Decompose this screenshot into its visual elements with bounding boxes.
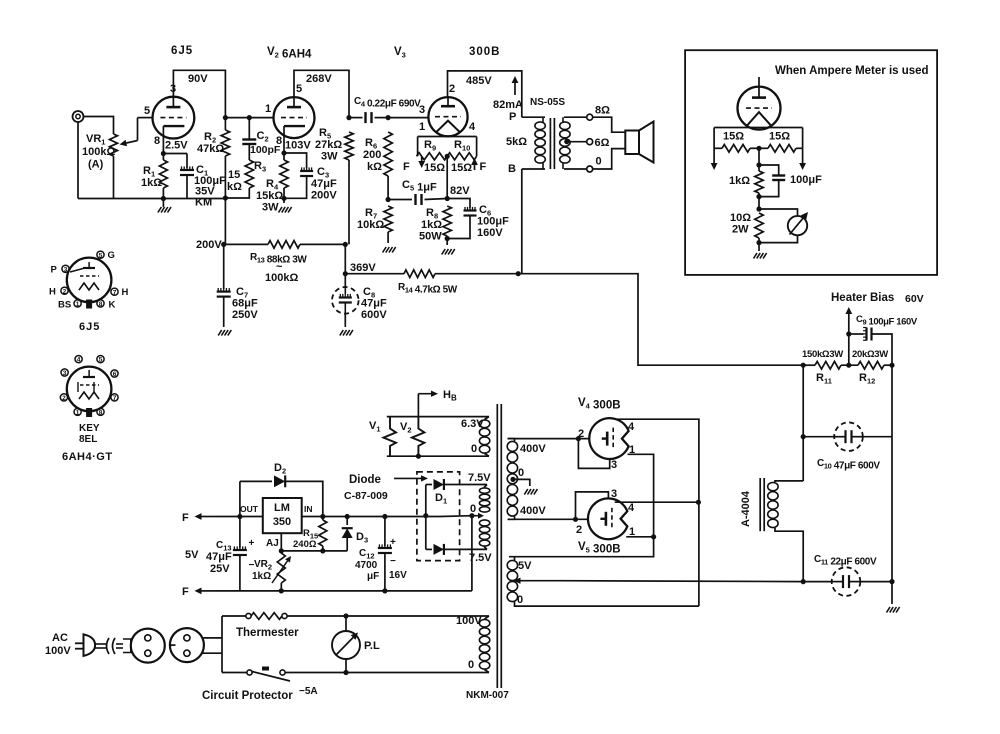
svg-text:2W: 2W xyxy=(732,224,749,236)
label primary 0 xyxy=(468,659,474,671)
wire 369V drop xyxy=(344,244,346,287)
svg-text:90V: 90V xyxy=(188,73,208,85)
svg-text:485V: 485V xyxy=(466,75,492,87)
svg-text:5: 5 xyxy=(99,357,103,364)
svg-text:−: − xyxy=(390,556,396,567)
wire R15 bottom xyxy=(322,546,324,551)
svg-text:H: H xyxy=(122,287,129,298)
svg-text:3: 3 xyxy=(63,370,67,377)
label 100V xyxy=(456,615,482,627)
svg-text:82mA: 82mA xyxy=(493,99,523,111)
label V4 pin3 xyxy=(611,459,617,471)
svg-text:15Ω: 15Ω xyxy=(723,131,744,143)
wire 369V rail to bias corner xyxy=(518,274,803,366)
wire V5 grid loop xyxy=(576,492,609,519)
label C13 value xyxy=(206,551,232,563)
wire input ground rail xyxy=(78,198,225,200)
wire connector stub bottom xyxy=(202,652,222,654)
transformer 100V primary winding xyxy=(479,619,489,669)
label C8 xyxy=(363,286,375,300)
svg-text:K: K xyxy=(109,300,116,311)
label C5 xyxy=(402,179,437,194)
node R1 ground junction xyxy=(161,196,166,201)
wire B line down xyxy=(521,169,523,274)
potentiometer VR2 1k xyxy=(272,553,291,583)
transformer T1 secondary winding xyxy=(560,117,570,169)
wire C12 bottom xyxy=(384,553,386,591)
label 2.5V xyxy=(165,140,188,152)
svg-text:47μF: 47μF xyxy=(311,178,337,190)
label AC 100V xyxy=(45,645,71,657)
svg-text:KEY: KEY xyxy=(79,423,100,434)
svg-text:82V: 82V xyxy=(450,185,470,197)
wire B lead xyxy=(522,168,545,170)
label 350 xyxy=(273,516,291,528)
svg-text:15Ω: 15Ω xyxy=(769,131,790,143)
transformer 6.3V winding xyxy=(479,420,489,453)
resistor R7 10k xyxy=(384,206,392,232)
wire D2 right xyxy=(285,481,323,516)
svg-text:6.3V: 6.3V xyxy=(461,418,484,430)
node 200V left junction xyxy=(221,242,226,247)
socket 6AH4 internals xyxy=(78,370,99,399)
label V5 pin1 xyxy=(629,526,635,538)
wire bias node xyxy=(848,330,850,365)
wire C6 bottom xyxy=(447,216,470,239)
label C4 value xyxy=(354,96,421,110)
node R11-R12 junction xyxy=(846,363,851,368)
svg-text:100kΩ: 100kΩ xyxy=(82,146,115,158)
label C7 xyxy=(236,286,248,300)
label R7 xyxy=(365,207,377,221)
wire center tap down xyxy=(446,156,448,198)
node AJ junction xyxy=(279,548,284,553)
svg-text:50W: 50W xyxy=(419,231,442,243)
socket 6AH4 pin8 xyxy=(97,408,104,416)
ground (bias filter) xyxy=(887,607,900,613)
wire meter return xyxy=(759,235,798,242)
wire meter bus left drop xyxy=(713,128,715,149)
socket 6J5 pin3 xyxy=(62,265,69,273)
label 7.5V upper xyxy=(468,472,491,484)
node meter center tap xyxy=(756,146,761,151)
label C13 volt xyxy=(210,563,230,575)
svg-text:3: 3 xyxy=(611,459,617,471)
svg-text:4700: 4700 xyxy=(355,560,378,571)
label R3 xyxy=(254,160,266,174)
svg-text:5: 5 xyxy=(99,252,103,259)
svg-text:10kΩ: 10kΩ xyxy=(357,219,384,231)
svg-text:Diode: Diode xyxy=(349,474,381,486)
label F bottom xyxy=(182,586,189,598)
label 8ohm xyxy=(595,105,610,117)
wire bias divider left drop xyxy=(802,365,804,481)
node cathode junction xyxy=(161,151,166,156)
cable break symbol xyxy=(107,638,116,654)
input jack J1 xyxy=(73,111,84,122)
wire 6J5 cathode xyxy=(162,138,164,153)
svg-text:When Ampere Meter is used: When Ampere Meter is used xyxy=(775,65,929,77)
wire R5 bottom xyxy=(348,160,350,244)
socket 6AH4 pin7 xyxy=(111,394,118,402)
label C6 value xyxy=(477,216,509,228)
diode D3 xyxy=(342,517,353,551)
svg-text:6J5: 6J5 xyxy=(171,45,193,57)
tube V4 300B rectifier xyxy=(589,418,628,459)
wire C11 left xyxy=(803,581,832,583)
pilot lamp P.L xyxy=(332,616,360,673)
tube 300B (meter option) xyxy=(738,77,781,130)
svg-text:0: 0 xyxy=(596,156,602,168)
wire 7.5 lower bottom xyxy=(484,547,487,550)
resistor R8 1k 50W xyxy=(443,206,451,236)
capacitor C1 100uF 35V xyxy=(180,166,194,175)
wire V5 pin1 out xyxy=(626,536,653,538)
label 0 tap xyxy=(470,503,476,515)
label R12 value xyxy=(852,349,888,360)
choke A-4004 core xyxy=(760,478,764,531)
node R15 bottom junction xyxy=(320,548,325,553)
label meter 15 left xyxy=(723,131,744,143)
label IN xyxy=(304,504,313,514)
svg-text:4: 4 xyxy=(469,121,476,133)
svg-text:NS-05S: NS-05S xyxy=(530,97,565,108)
wire V2 cathode xyxy=(283,138,285,153)
svg-text:4: 4 xyxy=(628,421,635,433)
ground under C8 xyxy=(340,330,353,336)
svg-text:1kΩ: 1kΩ xyxy=(729,175,750,187)
label V4 title xyxy=(578,397,621,412)
label R2 value xyxy=(197,143,224,155)
wire F bottom row xyxy=(216,590,472,592)
transformer T1 core xyxy=(550,118,554,169)
resistor R14 4.7k 5W xyxy=(404,270,435,278)
svg-text:68μF: 68μF xyxy=(232,298,258,310)
wire V4 pin1 out xyxy=(509,454,654,556)
svg-text:2: 2 xyxy=(449,83,455,95)
F arrow right xyxy=(471,158,478,170)
node C2 junction xyxy=(247,115,252,120)
resistor 15 left (meter) xyxy=(714,145,759,153)
svg-text:6AH4·GT: 6AH4·GT xyxy=(62,451,113,463)
wire C4 to grid node xyxy=(375,117,389,119)
wire C1 top xyxy=(186,154,188,169)
label 400V top xyxy=(520,443,546,455)
wire break to plug2 xyxy=(116,639,131,653)
label R13 line2 xyxy=(265,272,298,284)
svg-text:P.L: P.L xyxy=(364,640,380,652)
resistor 15 right (meter) xyxy=(759,145,803,153)
label V2 pin1 xyxy=(265,103,271,115)
svg-text:8: 8 xyxy=(276,135,282,147)
wire C10 right xyxy=(863,436,892,438)
node heater bottom junction xyxy=(416,454,421,459)
label V4 pin2 xyxy=(578,428,584,440)
wire D1 upper right xyxy=(444,484,487,486)
wire secondary 0ohm xyxy=(564,168,586,170)
ground under C7 xyxy=(218,330,231,336)
wire 7.5 upper top xyxy=(484,485,487,488)
wire 0ohm to speaker xyxy=(593,149,625,169)
svg-text:P: P xyxy=(509,111,516,123)
wire secondary 6ohm xyxy=(567,141,586,143)
wire HV bottom xyxy=(508,517,515,520)
svg-text:10Ω: 10Ω xyxy=(730,212,751,224)
label 6.3 0 xyxy=(471,443,477,455)
resistor R3 15k xyxy=(245,160,253,188)
svg-text:350: 350 xyxy=(273,516,291,528)
label 6J5 socket title xyxy=(79,321,100,333)
wire C13 bottom xyxy=(239,555,241,591)
wire Hb stem xyxy=(417,394,419,417)
svg-text:200: 200 xyxy=(363,149,381,161)
label 15k line1 xyxy=(228,169,240,181)
diode block D1 dashed box xyxy=(417,472,460,561)
wire choke top xyxy=(775,481,803,482)
label R5 xyxy=(319,127,331,141)
label D3 xyxy=(356,531,368,545)
node 90V/R2 junction xyxy=(223,115,228,120)
node C13 top junction xyxy=(237,514,242,519)
svg-text:15kΩ: 15kΩ xyxy=(256,190,283,202)
capacitor C4 0.22uF xyxy=(366,112,372,123)
svg-text:1: 1 xyxy=(265,103,271,115)
label F top xyxy=(182,512,189,524)
label V3 pin4 xyxy=(469,121,476,133)
thermistor (Thermester) xyxy=(246,613,287,620)
wire C13 cap stem xyxy=(239,517,241,549)
label F left xyxy=(403,161,410,173)
label 6.3V xyxy=(461,418,484,430)
wire C2 top xyxy=(248,118,250,139)
wire grid node to V3 xyxy=(388,117,428,119)
label AJ xyxy=(266,538,279,549)
label R6 value1 xyxy=(363,149,381,161)
diode D2 xyxy=(274,475,285,487)
wire D1 left vertical xyxy=(425,485,427,550)
capacitor C5 1uF xyxy=(416,194,422,205)
label V5 pin3 xyxy=(611,488,617,500)
label C12 value xyxy=(355,560,378,571)
label 15 left xyxy=(424,162,445,174)
node V2 cathode junction xyxy=(281,150,286,155)
wire C9 right xyxy=(872,334,893,365)
resistor R1 1k xyxy=(159,160,167,188)
AC plug xyxy=(75,634,95,656)
wire VR1 bottom xyxy=(113,156,115,199)
svg-text:C4 0.22μF 690V: C4 0.22μF 690V xyxy=(354,96,421,110)
capacitor C8 47uF 600V dashed xyxy=(332,287,359,314)
svg-text:F: F xyxy=(182,586,189,598)
label 369V xyxy=(350,262,376,274)
label R9 xyxy=(424,139,436,153)
svg-text:47μF: 47μF xyxy=(206,551,232,563)
label R10 xyxy=(454,139,470,153)
label 82mA xyxy=(493,99,523,111)
svg-text:0: 0 xyxy=(468,659,474,671)
diode D1 lower xyxy=(434,544,444,555)
label 300B title xyxy=(469,46,501,58)
wire primary bottom xyxy=(346,670,489,673)
tube U1 6J5 triode xyxy=(153,97,195,139)
ampere-meter option box xyxy=(685,50,937,275)
wire V5 pin4 out xyxy=(615,501,699,503)
wire thermester to PL xyxy=(287,615,346,617)
svg-text:V2 6AH4: V2 6AH4 xyxy=(267,46,312,61)
node 82V-left junction xyxy=(386,197,391,202)
label R2 xyxy=(204,131,216,145)
wire V3 filament left xyxy=(418,137,448,157)
node C10 left junction xyxy=(801,434,806,439)
svg-text:C-87-009: C-87-009 xyxy=(344,490,388,502)
label KEY xyxy=(79,423,100,434)
wire AC vertical link xyxy=(221,616,223,673)
label C12 minus xyxy=(390,556,396,567)
label R13 tilde xyxy=(276,261,283,273)
label OUT xyxy=(240,504,259,514)
node C12 bottom junction xyxy=(382,588,387,593)
svg-text:8: 8 xyxy=(99,301,103,308)
wire R2 leads xyxy=(224,118,226,245)
label R4 watt xyxy=(262,202,279,214)
label C1 value1 xyxy=(194,175,226,187)
wire P lead xyxy=(522,116,545,118)
wire plug to break xyxy=(95,644,107,648)
wire 5V bottom 0 xyxy=(515,602,699,606)
wire jack to VR1 top xyxy=(84,117,114,135)
svg-text:369V: 369V xyxy=(350,262,376,274)
socket 6J5 pin2 xyxy=(61,287,68,295)
label pin 8 xyxy=(154,135,160,147)
svg-text:1: 1 xyxy=(419,121,425,133)
wire bias ground stem xyxy=(891,582,893,604)
svg-text:4: 4 xyxy=(628,502,635,514)
label C10 xyxy=(817,458,880,472)
ground (meter) xyxy=(754,253,767,259)
resistor R13 88k-100k 3W xyxy=(268,241,300,249)
wire D2 top xyxy=(240,480,272,482)
capacitor C2 100pF xyxy=(242,140,256,145)
wire IN row to D1 xyxy=(440,515,472,518)
wire 6.3V bottom xyxy=(485,454,490,457)
socket 6J5 pin5 xyxy=(97,251,104,259)
arrow F top xyxy=(195,513,217,520)
socket 6J5 pin7 xyxy=(111,288,118,296)
socket 6J5 internals xyxy=(70,262,99,290)
node R15 top junction xyxy=(320,514,325,519)
choke A-4004 winding xyxy=(768,482,778,527)
wire meter bus right drop xyxy=(802,128,804,149)
label R4 xyxy=(266,178,279,192)
svg-text:F: F xyxy=(182,512,189,524)
wire heater box bottom xyxy=(387,455,489,457)
node 200V right junction xyxy=(343,242,348,247)
label C12 plus xyxy=(390,537,396,548)
wire 1k leads xyxy=(758,165,760,209)
node D1 center junction xyxy=(423,513,428,518)
svg-text:AC: AC xyxy=(52,632,68,644)
label 5A xyxy=(299,686,318,697)
svg-text:15Ω: 15Ω xyxy=(451,162,472,174)
label R6 xyxy=(365,137,377,151)
svg-text:Circuit Protector: Circuit Protector xyxy=(202,690,293,702)
wire IN row xyxy=(302,516,440,518)
socket 6AH4 pin2 xyxy=(60,394,67,402)
transformer T1 primary winding xyxy=(535,117,545,169)
svg-text:2: 2 xyxy=(576,524,582,536)
wire jack ground side xyxy=(77,122,79,199)
label V1 xyxy=(369,420,381,434)
svg-text:27kΩ: 27kΩ xyxy=(315,139,342,151)
label C7 value xyxy=(232,298,258,310)
label V2 pin5 xyxy=(296,83,302,95)
resistor R15 240 xyxy=(319,520,327,546)
label Circuit Protector xyxy=(202,690,293,702)
svg-text:25V: 25V xyxy=(210,563,230,575)
wire C7 top xyxy=(223,244,225,289)
resistor 10 2W (meter) xyxy=(755,213,763,238)
wire 200V rail left xyxy=(224,243,268,245)
svg-text:+: + xyxy=(249,538,255,549)
label 6J5 title xyxy=(171,45,193,57)
wire protector to PL xyxy=(285,672,346,674)
socket 6J5 pin8 xyxy=(97,300,104,308)
node C11 right junction xyxy=(889,579,894,584)
label R14 xyxy=(398,282,458,296)
wire V5 plate row xyxy=(508,518,588,520)
svg-text:0: 0 xyxy=(517,594,523,606)
label meter 100uF xyxy=(790,174,822,186)
node filament center tap xyxy=(445,154,450,159)
wire AJ lead xyxy=(280,533,282,551)
label VR2 xyxy=(254,559,272,572)
label 8EL xyxy=(79,434,97,445)
label NKM-007 xyxy=(466,690,509,701)
wire 5V tap arrow xyxy=(514,578,804,584)
wire 8ohm to speaker xyxy=(593,117,625,132)
label 0ohm xyxy=(596,156,602,168)
socket 6AH4 pin4 xyxy=(75,356,82,364)
capacitor C11 22uF 600V dashed xyxy=(832,567,861,596)
wire meter tap down xyxy=(758,148,760,165)
wire VR1 wiper from grid xyxy=(137,118,139,141)
socket 6AH4 pin5 xyxy=(97,356,104,364)
svg-text:−5A: −5A xyxy=(299,686,318,697)
wire C5 left xyxy=(388,199,412,201)
label 6ohm xyxy=(595,137,610,149)
label 6J5 H right xyxy=(122,287,129,298)
ampere meter M xyxy=(788,212,808,235)
socket 6AH4 pin3 xyxy=(61,369,68,377)
label meter 2W xyxy=(732,224,749,236)
label V4 pin1 xyxy=(629,444,635,456)
svg-text:8EL: 8EL xyxy=(79,434,97,445)
label R8 xyxy=(426,207,438,221)
ground under R4 xyxy=(279,207,292,213)
resistor R12 20k 3W xyxy=(858,361,884,369)
wire 200V rail right xyxy=(300,243,345,245)
label R15 xyxy=(303,528,318,541)
diode D1 upper xyxy=(434,479,444,490)
svg-text:5: 5 xyxy=(144,105,150,117)
node C11 left junction xyxy=(801,579,806,584)
label R15 value xyxy=(293,539,317,550)
svg-text:F: F xyxy=(403,161,410,173)
node R4 bottom junction xyxy=(281,196,286,201)
svg-text:20kΩ3W: 20kΩ3W xyxy=(852,349,888,360)
label 90V xyxy=(188,73,208,85)
svg-text:100μF: 100μF xyxy=(477,216,509,228)
